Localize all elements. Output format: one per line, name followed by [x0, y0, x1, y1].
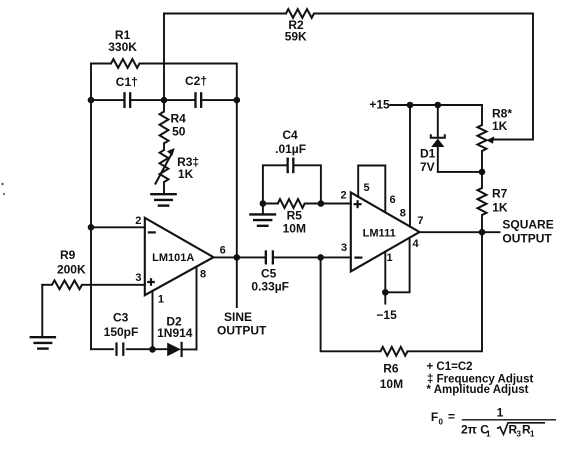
svg-text:6: 6	[220, 245, 226, 257]
svg-text:1N914: 1N914	[157, 326, 193, 340]
svg-text:OUTPUT: OUTPUT	[502, 231, 552, 245]
svg-text:F: F	[431, 410, 438, 424]
svg-text:R7: R7	[492, 187, 508, 201]
svg-text:3: 3	[135, 272, 141, 284]
svg-text:8: 8	[200, 269, 206, 281]
svg-text:3: 3	[341, 242, 347, 254]
svg-text:1: 1	[387, 252, 393, 264]
svg-text:+ C1=C2: + C1=C2	[427, 361, 473, 373]
svg-text:1: 1	[530, 430, 535, 439]
svg-text:6: 6	[389, 194, 395, 206]
svg-text:59K: 59K	[285, 30, 307, 44]
svg-text:10M: 10M	[283, 222, 306, 236]
svg-text:C5: C5	[261, 267, 277, 281]
svg-text:R9: R9	[60, 248, 76, 262]
svg-text:200K: 200K	[57, 263, 86, 277]
svg-text:R5: R5	[287, 208, 303, 222]
svg-text:330K: 330K	[108, 40, 137, 54]
svg-text:3: 3	[517, 430, 522, 439]
svg-text:2: 2	[135, 215, 141, 227]
svg-text:1: 1	[486, 430, 491, 439]
svg-text:* Amplitude Adjust: * Amplitude Adjust	[427, 384, 529, 396]
svg-text:2π C: 2π C	[461, 423, 489, 437]
svg-text:50: 50	[172, 124, 186, 138]
svg-text:1K: 1K	[178, 167, 194, 181]
svg-text:LM101A: LM101A	[152, 252, 194, 264]
svg-text:=: =	[448, 410, 455, 424]
svg-text:1: 1	[158, 293, 164, 305]
svg-text:0.33µF: 0.33µF	[251, 280, 289, 294]
svg-text:1K: 1K	[492, 119, 508, 133]
svg-text:10M: 10M	[380, 377, 403, 391]
svg-text:1K: 1K	[492, 201, 508, 215]
svg-text:R6: R6	[383, 362, 399, 376]
svg-text:7V: 7V	[420, 160, 435, 174]
svg-text:8: 8	[400, 208, 406, 220]
svg-text:−15: −15	[376, 308, 397, 322]
svg-text:+15: +15	[369, 98, 390, 112]
svg-text:D1: D1	[420, 147, 436, 161]
svg-text:SINE: SINE	[224, 310, 252, 324]
svg-text:1: 1	[497, 406, 504, 420]
svg-text:.01µF: .01µF	[275, 142, 306, 156]
svg-text:SQUARE: SQUARE	[502, 218, 553, 232]
svg-text:4: 4	[412, 238, 419, 250]
svg-text:C2†: C2†	[185, 74, 207, 88]
svg-text:C4: C4	[282, 128, 298, 142]
svg-text:150pF: 150pF	[104, 325, 139, 339]
svg-text:LM111: LM111	[363, 228, 396, 240]
svg-text:OUTPUT: OUTPUT	[217, 324, 267, 338]
svg-text:0: 0	[439, 418, 444, 427]
svg-text:7: 7	[417, 215, 423, 227]
svg-text:C1†: C1†	[116, 75, 138, 89]
svg-text:5: 5	[364, 182, 370, 194]
svg-text:2: 2	[341, 190, 347, 202]
svg-text:C3: C3	[113, 311, 129, 325]
